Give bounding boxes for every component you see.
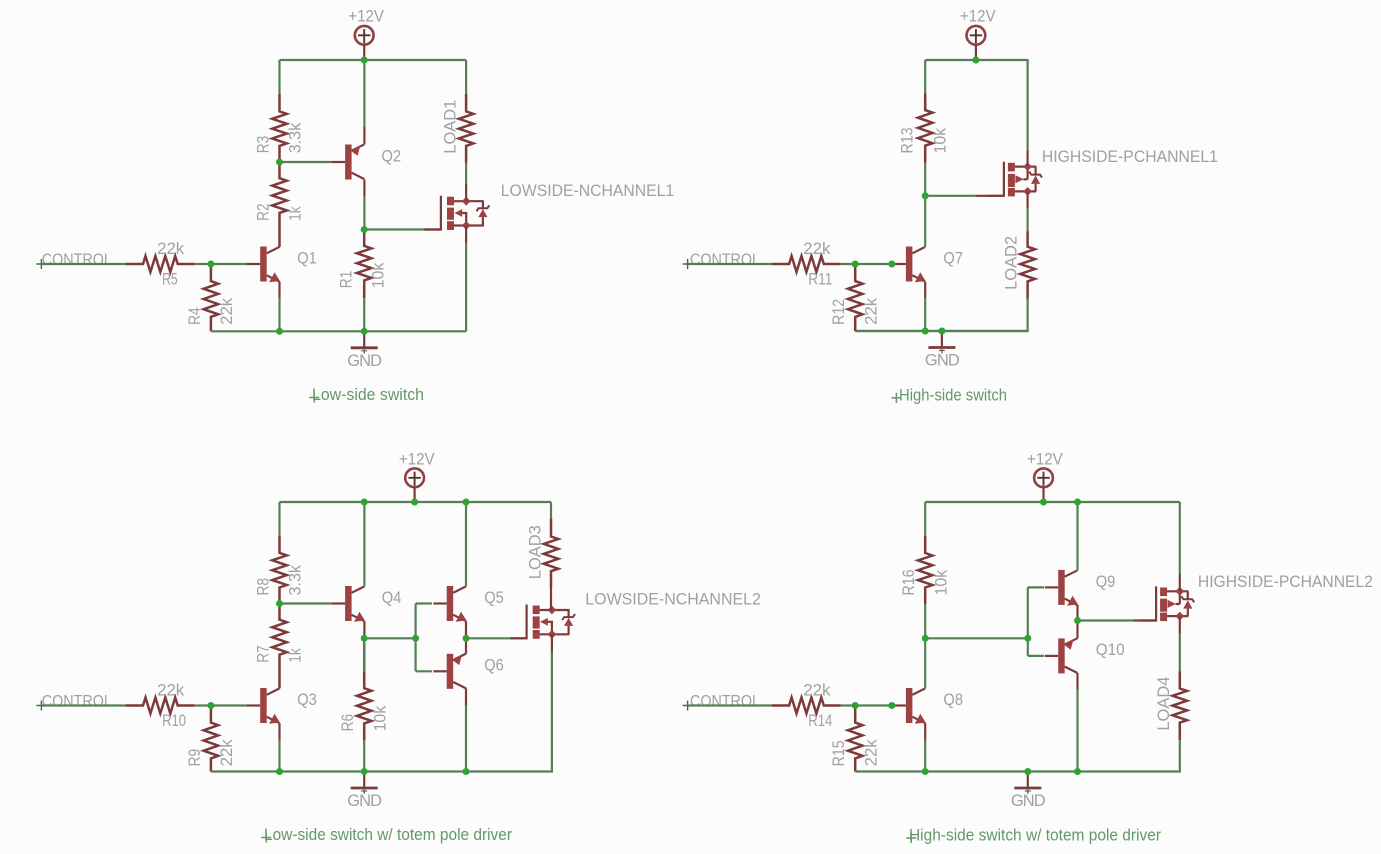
svg-text:+12V: +12V <box>348 8 384 26</box>
wire LOAD4 to bottom rail <box>1078 740 1180 771</box>
svg-text:+12V: +12V <box>399 450 435 468</box>
svg-text:HIGHSIDE-PCHANNEL1: HIGHSIDE-PCHANNEL1 <box>1042 148 1218 166</box>
node R3/R2/Q2-base junction <box>276 159 283 166</box>
resistor R5 <box>125 256 194 272</box>
resistor LOAD2 <box>1020 232 1035 299</box>
supply +12V circuit 2 <box>967 26 986 45</box>
node GND junction circuit 2 <box>938 328 945 335</box>
wire CONTROL to R10 <box>41 704 125 706</box>
svg-text:Q8: Q8 <box>943 691 963 709</box>
svg-text:GND: GND <box>347 792 382 810</box>
svg-text:Q9: Q9 <box>1096 573 1116 591</box>
svg-text:Q6: Q6 <box>484 656 504 674</box>
node GND bottom-rail junction circuit 4 <box>1024 768 1031 775</box>
svg-text:22k: 22k <box>862 739 880 767</box>
transistor Q5 (NPN) <box>447 586 454 621</box>
wire Q1 emitter to bottom rail <box>278 282 280 298</box>
svg-text:Q7: Q7 <box>943 250 963 268</box>
wire Q6 emitter to output node <box>465 638 467 653</box>
resistor R6 <box>357 643 372 740</box>
node top-rail junction circuit 4 (+12V) <box>1040 499 1047 506</box>
svg-text:R5: R5 <box>162 270 178 288</box>
node Q10-collector bottom-rail junction <box>1074 768 1081 775</box>
resistor R2 <box>272 162 287 247</box>
wire R14 to base node <box>841 704 855 706</box>
transistor Q2 (PNP) <box>345 145 352 180</box>
node R16/Q8-collector/driver junction <box>922 635 929 642</box>
wire PMOS source to top rail <box>1026 151 1028 167</box>
wire top rail +12V circuit 2 <box>925 59 1027 61</box>
svg-text:CONTROL: CONTROL <box>690 251 760 269</box>
node Q1-emitter/bottom-rail junction <box>276 328 283 335</box>
wire Q9 emitter to output node <box>1076 605 1078 620</box>
wire Q6 collector to bottom rail <box>465 688 467 705</box>
p-channel MOSFET HIGHSIDE-PCHANNEL2 <box>1140 586 1157 620</box>
wire node to Q1 base <box>211 263 248 265</box>
wire bottom rail circuit 3 <box>211 770 551 772</box>
wire Q8 emitter to bottom rail <box>924 723 926 739</box>
pin cross CONTROL circuit 1 <box>36 259 46 269</box>
wire bases vertical circuit 4 <box>1027 587 1029 656</box>
wire Q5 emitter to output node <box>465 621 467 638</box>
svg-text:22k: 22k <box>862 297 880 325</box>
node R8/R7/Q4-base junction <box>276 600 283 607</box>
node top-rail junction circuit 3 (Q5) <box>463 499 470 506</box>
svg-text:R3: R3 <box>255 136 273 154</box>
svg-text:LOAD2: LOAD2 <box>1003 236 1021 290</box>
wire node to Q7 base <box>855 263 892 265</box>
wire LOAD3 to NMOS drain <box>550 588 552 610</box>
wire top rail +12V circuit 4 <box>925 501 1180 503</box>
resistor R4 <box>204 264 219 331</box>
node Q7-emitter/bottom-rail junction <box>922 328 929 335</box>
svg-text:R12: R12 <box>830 299 848 325</box>
wire junction to Q4 base <box>280 602 332 604</box>
wire top rail +12V circuit 3 <box>280 501 552 503</box>
node Q9/Q10 emitters junction <box>1074 617 1081 624</box>
resistor R12 <box>848 264 863 331</box>
svg-text:10k: 10k <box>932 569 950 595</box>
wire to Q9 base <box>1028 586 1044 588</box>
resistor LOAD3 <box>550 502 552 518</box>
svg-text:R8: R8 <box>255 578 273 596</box>
svg-text:22k: 22k <box>157 240 185 258</box>
pin cross CONTROL circuit 3 <box>36 701 46 711</box>
wire Q7 collector to gate node <box>924 196 926 247</box>
svg-text:Q4: Q4 <box>382 589 402 607</box>
wire CONTROL to R11 <box>688 263 772 265</box>
svg-text:R14: R14 <box>808 712 832 730</box>
wire rail to R3 <box>278 60 280 94</box>
wire Q7 emitter to bottom rail <box>924 282 926 298</box>
node top-rail junction circuit 2 <box>972 57 979 64</box>
origin cross caption 2 <box>891 393 901 403</box>
svg-text:GND: GND <box>1011 792 1046 810</box>
svg-text:22k: 22k <box>803 682 831 700</box>
svg-text:High-side switch w/ totem pole: High-side switch w/ totem pole driver <box>909 827 1161 845</box>
node R13/Q7-collector/gate junction <box>922 192 929 199</box>
wire to Q6 base <box>416 670 432 672</box>
wire to Q10 base <box>1028 655 1044 657</box>
svg-text:Q1: Q1 <box>297 250 317 268</box>
pin cross CONTROL circuit 2 <box>683 259 693 269</box>
transistor Q7 (NPN) <box>906 247 913 282</box>
node GND/R1 bottom-rail junction <box>361 328 368 335</box>
ground symbol circuit 1 <box>363 331 365 347</box>
wire rail to R13 <box>924 60 926 94</box>
wire R10 to base node <box>195 704 211 706</box>
resistor R15 <box>848 706 863 772</box>
wire driver node to bases <box>925 637 1028 639</box>
node Q3-emitter/bottom-rail junction <box>276 768 283 775</box>
pin cross CONTROL circuit 4 <box>683 701 693 711</box>
transistor Q6 (PNP) <box>447 654 454 689</box>
node GND/R6 bottom-rail junction <box>361 768 368 775</box>
wire rail to R16 <box>924 502 926 536</box>
transistor Q10 (PNP) <box>1058 638 1065 673</box>
svg-text:22k: 22k <box>157 682 185 700</box>
svg-text:R16: R16 <box>900 570 918 596</box>
node R11/R12/Q7-base junction <box>852 261 859 268</box>
svg-text:22k: 22k <box>218 297 236 325</box>
svg-text:Q2: Q2 <box>382 148 402 166</box>
svg-text:R9: R9 <box>186 749 204 767</box>
svg-text:R10: R10 <box>162 712 186 730</box>
svg-text:LOWSIDE-NCHANNEL2: LOWSIDE-NCHANNEL2 <box>585 591 761 609</box>
resistor R8 <box>272 536 287 604</box>
svg-text:3.3k: 3.3k <box>287 122 305 153</box>
transistor Q4 (NPN) <box>345 586 352 621</box>
svg-text:10k: 10k <box>931 127 949 153</box>
svg-text:1k: 1k <box>287 648 305 663</box>
svg-text:10k: 10k <box>371 705 389 731</box>
wire rail to R8 <box>278 502 280 536</box>
resistor R3 <box>272 94 287 162</box>
svg-text:+12V: +12V <box>960 8 996 26</box>
supply +12V circuit 3 <box>405 468 424 487</box>
wire output node to PMOS gate <box>1078 619 1134 621</box>
transistor Q8 (NPN) <box>906 688 913 723</box>
node R14/R15/Q8-base junction <box>852 702 859 709</box>
svg-text:Low-side switch w/ totem pole: Low-side switch w/ totem pole driver <box>264 826 512 844</box>
origin cross caption 1 <box>309 393 319 403</box>
svg-text:Q5: Q5 <box>484 589 504 607</box>
wire PMOS drain to LOAD2 <box>1026 191 1028 209</box>
resistor R10 <box>125 698 194 714</box>
resistor R9 <box>204 706 219 772</box>
resistor R13 <box>918 94 933 163</box>
resistor R11 <box>772 256 841 272</box>
wire Q4 collector to top rail <box>363 502 365 586</box>
wire LOAD1 to NMOS drain <box>465 163 467 184</box>
wire Q3 emitter to bottom rail <box>278 723 280 739</box>
svg-text:HIGHSIDE-PCHANNEL2: HIGHSIDE-PCHANNEL2 <box>1198 573 1373 591</box>
wire Q8 collector to driver node <box>924 638 926 688</box>
wire driver node to bases <box>364 637 415 639</box>
wire R6 to bottom rail <box>363 740 365 771</box>
wire junction to Q2 base <box>280 161 332 163</box>
svg-text:R7: R7 <box>255 645 273 663</box>
ground symbol circuit 4 <box>1027 772 1029 788</box>
svg-text:Q10: Q10 <box>1096 641 1125 659</box>
svg-text:22k: 22k <box>218 739 236 767</box>
wire Q10 emitter to output node <box>1076 621 1078 639</box>
node top-rail junction circuit 3 (Q4) <box>361 499 368 506</box>
wire bottom rail circuit 4 <box>855 770 1077 772</box>
node R5/R4/Q1-base junction <box>207 261 214 268</box>
wire R13 to gate node <box>924 163 926 196</box>
svg-text:+12V: +12V <box>1027 450 1063 468</box>
svg-text:R13: R13 <box>899 128 917 154</box>
wire node to PMOS gate <box>925 195 976 197</box>
node Q8 base wire junction <box>888 702 895 709</box>
node Q6-collector bottom-rail junction <box>463 768 470 775</box>
n-channel MOSFET LOWSIDE-NCHANNEL1 <box>424 196 441 230</box>
svg-text:22k: 22k <box>803 240 831 258</box>
svg-text:Low-side switch: Low-side switch <box>312 386 424 404</box>
ground symbol circuit 2 <box>941 331 943 347</box>
svg-text:10k: 10k <box>369 262 387 288</box>
wire driver node to R6 <box>363 642 365 673</box>
svg-text:CONTROL: CONTROL <box>690 693 760 711</box>
node Q2-collector/R1/gate junction <box>361 226 368 233</box>
wire NMOS source to bottom rail <box>551 634 553 652</box>
svg-text:CONTROL: CONTROL <box>42 251 112 269</box>
origin cross caption 4 <box>906 833 916 843</box>
wire LOAD2 to bottom rail <box>855 299 1027 332</box>
svg-text:CONTROL: CONTROL <box>42 693 112 711</box>
node Q7 base wire junction <box>888 261 895 268</box>
svg-text:R4: R4 <box>186 307 204 325</box>
wire top rail +12V circuit 1 <box>280 59 467 61</box>
svg-text:LOWSIDE-NCHANNEL1: LOWSIDE-NCHANNEL1 <box>501 182 674 200</box>
resistor R14 <box>772 698 841 714</box>
n-channel MOSFET LOWSIDE-NCHANNEL2 <box>510 605 526 639</box>
origin cross caption 3 <box>261 833 271 843</box>
wire output node to NMOS gate <box>466 637 517 639</box>
node top-rail junction circuit 4 (Q9) <box>1074 499 1081 506</box>
svg-text:R11: R11 <box>808 270 832 288</box>
wire Q4 emitter to driver node <box>363 621 365 638</box>
node top-rail junction circuit 3 (+12V) <box>411 499 418 506</box>
svg-text:GND: GND <box>925 352 960 370</box>
supply +12V circuit 4 <box>1034 468 1053 487</box>
node top-rail junction circuit 1 <box>361 57 368 64</box>
node Q8-emitter/bottom-rail junction <box>922 768 929 775</box>
node Q5/Q6 emitters junction <box>463 635 470 642</box>
svg-text:GND: GND <box>347 352 382 370</box>
wire R1 to bottom rail <box>363 298 365 331</box>
svg-text:LOAD4: LOAD4 <box>1155 677 1173 731</box>
node Q4-emitter/R6 junction <box>361 635 368 642</box>
wire PMOS drain to LOAD4 <box>1179 616 1181 633</box>
resistor LOAD1 <box>465 60 467 94</box>
svg-text:1k: 1k <box>287 206 305 221</box>
wire PMOS source to top rail <box>1179 574 1181 591</box>
transistor Q1 (NPN) <box>260 247 267 282</box>
wire CONTROL to R5 <box>41 263 125 265</box>
node R10/R9/Q3-base junction <box>207 702 214 709</box>
node bases junction circuit 4 <box>1024 635 1031 642</box>
svg-text:R15: R15 <box>830 740 848 766</box>
wire bottom rail circuit 2 <box>855 330 1027 332</box>
wire Q9 collector to top rail <box>1076 502 1078 570</box>
svg-text:LOAD1: LOAD1 <box>442 100 460 154</box>
resistor R16 <box>918 536 933 604</box>
wire Q10 collector to bottom rail <box>1076 673 1078 690</box>
p-channel MOSFET HIGHSIDE-PCHANNEL1 <box>987 162 1004 196</box>
supply +12V circuit 1 <box>355 26 374 45</box>
node bases junction <box>412 635 419 642</box>
wire Q2 collector down to node <box>363 180 365 197</box>
svg-text:R2: R2 <box>255 203 273 221</box>
resistor R7 <box>272 604 287 689</box>
wire R11 to base node <box>841 263 855 265</box>
transistor Q3 (NPN) <box>260 688 267 723</box>
wire to Q5 base <box>416 602 432 604</box>
resistor LOAD4 <box>1173 671 1188 740</box>
svg-text:High-side switch: High-side switch <box>899 386 1007 404</box>
svg-text:3.3k: 3.3k <box>287 564 305 595</box>
ground symbol circuit 3 <box>363 772 365 788</box>
svg-text:Q3: Q3 <box>297 691 317 709</box>
wire node to Q8 base <box>855 704 892 706</box>
svg-text:R1: R1 <box>338 271 356 289</box>
wire bases vertical <box>415 604 417 672</box>
resistor R1 <box>357 230 372 299</box>
transistor Q9 (NPN) <box>1058 570 1065 605</box>
svg-text:R6: R6 <box>339 714 357 732</box>
wire bottom rail circuit 1 <box>211 330 466 332</box>
svg-text:LOAD3: LOAD3 <box>526 525 544 579</box>
wire CONTROL to R14 <box>688 704 772 706</box>
wire Q5 collector to top rail <box>465 502 467 586</box>
wire junction to NMOS gate <box>364 228 432 230</box>
wire R16 to driver node <box>924 604 926 638</box>
wire R5 to base node <box>195 263 211 265</box>
wire NMOS source to bottom rail <box>465 226 467 243</box>
wire node to Q3 base <box>211 704 248 706</box>
wire Q2 emitter to top rail <box>363 127 365 144</box>
